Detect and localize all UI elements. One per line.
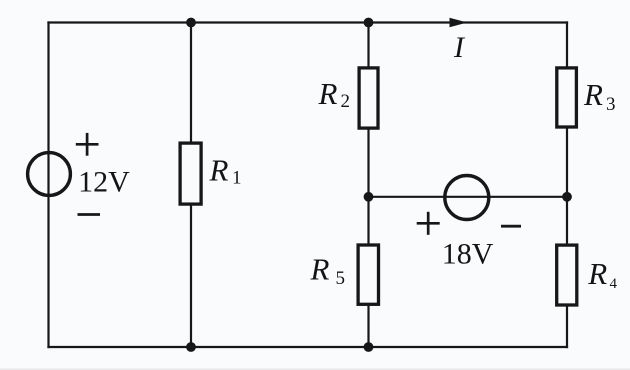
minus sign of 12V (78, 213, 101, 216)
svg-text:18V: 18V (442, 238, 494, 271)
svg-text:3: 3 (606, 94, 616, 115)
plus sign of 18V (417, 212, 440, 235)
svg-text:1: 1 (232, 168, 242, 189)
resistor R3 (557, 68, 577, 127)
resistor R1 (180, 143, 201, 204)
node dot top-mid (364, 18, 374, 28)
wire bottom (49, 346, 568, 348)
minus sign of 18V (501, 225, 521, 228)
node dot bottom-R1 (186, 342, 196, 352)
wire right branch (566, 23, 568, 348)
svg-text:R: R (310, 252, 330, 287)
node dot mid-right (562, 192, 572, 202)
resistor R5 (358, 245, 378, 304)
svg-text:12V: 12V (78, 166, 130, 199)
node dot top-R1 (186, 18, 196, 28)
resistor R2 (359, 68, 378, 128)
svg-text:R: R (583, 77, 603, 112)
wire left (through 12V source) (47, 23, 49, 348)
current arrow I (450, 18, 468, 27)
wire branch R1 (190, 23, 192, 348)
svg-text:2: 2 (341, 91, 351, 112)
wire top (49, 21, 568, 23)
svg-text:R: R (209, 152, 229, 187)
voltage source V2 18V (445, 176, 489, 220)
svg-text:5: 5 (336, 268, 346, 289)
svg-text:R: R (587, 256, 607, 291)
voltage source V1 12V (28, 153, 71, 196)
svg-text:4: 4 (610, 276, 618, 292)
wire middle (through 18V source) (369, 196, 568, 198)
node dot bottom-mid (364, 342, 374, 352)
node dot mid-left (364, 192, 374, 202)
svg-text:R: R (318, 76, 338, 111)
resistor R4 (557, 245, 577, 305)
wire branch R2/R5 (367, 23, 369, 348)
plus sign of 12V (76, 133, 99, 156)
